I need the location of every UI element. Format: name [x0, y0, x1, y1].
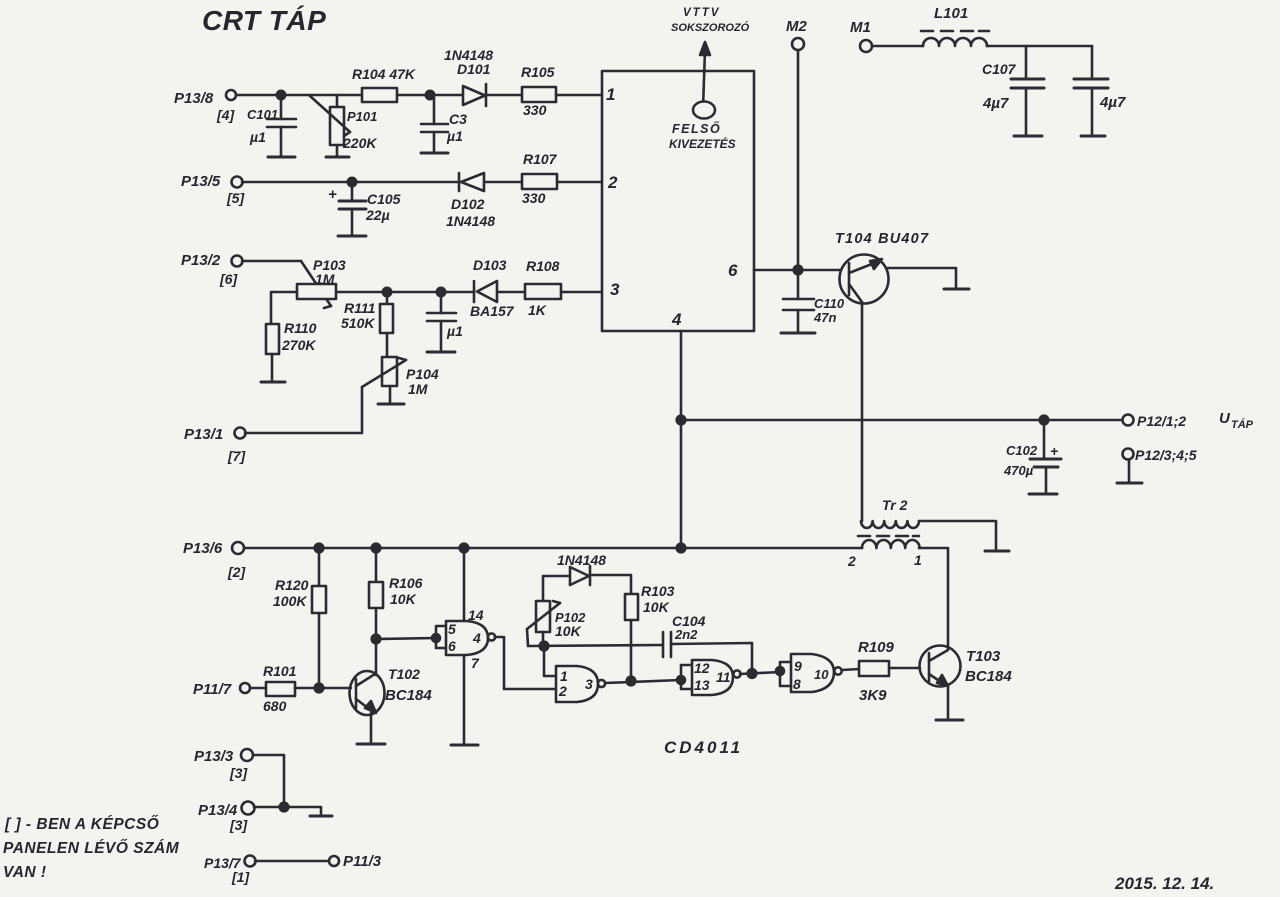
wire T103 emitter to ground	[947, 686, 950, 719]
wire D101 to R105	[486, 94, 522, 97]
svg-text:R110: R110	[284, 320, 317, 336]
ground under u1 cap	[427, 351, 455, 354]
svg-text:R111: R111	[344, 300, 376, 316]
svg-text:VTTV: VTTV	[683, 7, 720, 19]
ground under T103	[936, 719, 963, 722]
svg-text:[3]: [3]	[229, 765, 248, 781]
node junction at cap	[437, 288, 445, 296]
svg-text:1N4148: 1N4148	[557, 552, 606, 568]
node junction R103 bottom	[627, 677, 636, 686]
ground at P13/4	[310, 815, 332, 818]
terminal P13/1	[184, 426, 246, 464]
wire NAND2 out to NAND3 in	[605, 680, 681, 683]
svg-text:4: 4	[472, 630, 481, 646]
svg-text:D103: D103	[473, 257, 507, 273]
wire P13/5 to D102	[242, 181, 458, 184]
wire junction to NAND1 inputs	[376, 638, 436, 639]
svg-text:[4]: [4]	[216, 107, 235, 123]
ground under C107	[1014, 135, 1042, 138]
svg-text:D101: D101	[457, 61, 491, 77]
node junction pin4/P12	[677, 416, 686, 425]
wire P13/6 long rail	[244, 547, 862, 550]
terminal M2	[786, 18, 807, 50]
wire T104 emitter to ground	[888, 268, 956, 288]
potentiometer P101 220K	[310, 95, 377, 156]
svg-text:R108: R108	[526, 258, 560, 274]
svg-text:3: 3	[610, 280, 620, 299]
resistor R109 3K9	[858, 639, 895, 704]
svg-text:330: 330	[522, 190, 546, 206]
wire P103 right to D103	[336, 291, 474, 294]
svg-text:µ1: µ1	[446, 323, 463, 339]
terminal P13/8	[174, 90, 236, 123]
node junction R106/gate input	[372, 635, 381, 644]
svg-text:4: 4	[671, 310, 682, 329]
ground under C101	[268, 156, 295, 159]
wire P103 left to R110	[271, 292, 297, 324]
node junction C104 feedback	[748, 669, 757, 678]
wire P13/4 to ground	[254, 807, 321, 815]
wire P13/2 to P103 wiper	[242, 260, 301, 263]
svg-text:P11/7: P11/7	[193, 681, 232, 698]
node junction at C105	[348, 178, 356, 186]
ground under C102	[1029, 493, 1057, 496]
wire NAND1 out to NAND2 pin2	[495, 637, 556, 689]
wire R101 to T102 base	[295, 687, 351, 690]
resistor R106 10K	[369, 548, 423, 675]
transistor T103 BC184	[920, 646, 1013, 687]
svg-text:[6]: [6]	[219, 271, 238, 287]
wire T104 collector down to Tr2	[861, 302, 864, 521]
capacitor C105 22u electrolytic	[328, 182, 401, 235]
terminal M1	[850, 19, 872, 52]
svg-text:L101: L101	[934, 5, 968, 22]
wire P13/1 to P104 wiper	[245, 387, 362, 433]
svg-text:R101: R101	[263, 663, 297, 679]
svg-text:µ1: µ1	[446, 128, 463, 144]
note text bottom left	[3, 815, 180, 881]
svg-text:8: 8	[793, 676, 801, 692]
svg-text:10K: 10K	[555, 623, 582, 639]
capacitor C102 470u	[1003, 420, 1061, 493]
svg-text:BC184: BC184	[385, 687, 432, 704]
NAND gate U1A pins 5,6,4	[436, 607, 495, 671]
svg-text:TÁP: TÁP	[1231, 418, 1254, 431]
svg-text:6: 6	[448, 638, 456, 654]
terminal P12/1;2 U TAP	[1123, 410, 1254, 431]
svg-text:P13/8: P13/8	[174, 90, 214, 107]
resistor R108 1K	[525, 258, 561, 318]
wire C104 right to NAND3 out node	[671, 643, 752, 674]
svg-text:1N4148: 1N4148	[446, 213, 495, 229]
diode D102 1N4148	[446, 173, 495, 229]
svg-text:P12/3;4;5: P12/3;4;5	[1135, 447, 1197, 463]
node junction at R111	[383, 288, 391, 296]
svg-text:470µ: 470µ	[1003, 463, 1034, 478]
svg-text:3: 3	[585, 676, 593, 692]
svg-text:R104 47K: R104 47K	[352, 66, 416, 82]
svg-text:P13/2: P13/2	[181, 252, 221, 269]
svg-text:R106: R106	[389, 575, 423, 591]
wire D103 to R108	[497, 291, 525, 294]
svg-text:4µ7: 4µ7	[982, 95, 1009, 112]
svg-text:2: 2	[847, 553, 856, 569]
transformer Tr2	[847, 497, 922, 569]
wire Tr2 top right to ground	[919, 521, 996, 549]
svg-text:R109: R109	[858, 639, 895, 656]
svg-text:[7]: [7]	[227, 448, 246, 464]
potentiometer P104 1M	[362, 357, 439, 403]
arrow top terminal	[700, 42, 710, 108]
wire P11/7 to R101	[250, 687, 266, 690]
wire R108 to pin 3	[561, 291, 602, 294]
wire R104 to D101	[397, 94, 464, 97]
resistor R110 270K	[266, 320, 317, 381]
svg-text:Tr 2: Tr 2	[882, 497, 908, 513]
svg-text:P13/1: P13/1	[184, 426, 223, 443]
ground under second cap	[1081, 135, 1105, 138]
terminal P13/5	[181, 173, 245, 206]
svg-text:1M: 1M	[408, 381, 428, 397]
svg-text:+: +	[328, 186, 337, 203]
svg-text:P101: P101	[347, 109, 377, 124]
ground under C105	[338, 235, 366, 238]
wire pin7 to ground	[463, 655, 466, 744]
svg-text:[2]: [2]	[227, 564, 246, 580]
svg-text:P13/6: P13/6	[183, 540, 223, 557]
resistor R107 330	[522, 151, 558, 206]
node junction P13/3-P13/4	[280, 803, 289, 812]
svg-text:6: 6	[728, 261, 738, 280]
terminal P13/6	[183, 540, 246, 580]
wire pin 4 down	[680, 331, 683, 548]
capacitor C104 2n2	[663, 613, 706, 657]
diode D101 1N4148	[444, 47, 493, 106]
svg-text:R103: R103	[641, 583, 675, 599]
svg-text:CRT TÁP: CRT TÁP	[202, 5, 326, 36]
wire R109 to T103 base	[889, 667, 920, 670]
capacitor C107 4u7	[982, 46, 1044, 135]
inductor L101	[921, 5, 989, 46]
node junctions on rail	[315, 544, 324, 553]
wire R107 to pin 2	[557, 181, 602, 184]
terminal P11/3	[329, 853, 382, 870]
svg-text:VAN !: VAN !	[3, 864, 47, 881]
svg-text:C102: C102	[1006, 443, 1038, 458]
ground under C110	[781, 332, 815, 335]
svg-text:11: 11	[716, 669, 731, 685]
terminal P13/4	[198, 802, 255, 834]
svg-text:10: 10	[814, 667, 829, 682]
ground under P101	[326, 156, 349, 159]
wire NAND3 out to NAND4 in	[740, 672, 780, 674]
wire P13/7 to P11/3	[255, 860, 329, 863]
wire P13/8 to R104	[236, 94, 362, 97]
transistor T102 BC184	[350, 666, 433, 715]
svg-text:3K9: 3K9	[859, 687, 887, 704]
resistor R103 10K	[625, 583, 675, 681]
svg-text:13: 13	[694, 677, 710, 693]
wire pin 6 to T104 base	[754, 269, 841, 272]
svg-text:CD4011: CD4011	[664, 738, 743, 757]
capacitor 4u7 second	[1074, 46, 1126, 135]
terminal P12/3;4;5	[1123, 447, 1197, 482]
transistor T104 BU407	[835, 231, 929, 304]
wire NAND4 out to R109	[842, 669, 859, 670]
wire P102 to C104	[528, 645, 663, 646]
svg-text:1K: 1K	[528, 302, 547, 318]
ground under P104	[378, 403, 404, 406]
svg-text:M1: M1	[850, 19, 871, 36]
svg-text:SOKSZOROZÓ: SOKSZOROZÓ	[671, 21, 750, 34]
NAND gate U1D pins 9,8,10	[780, 654, 842, 692]
diode D103 BA157	[470, 257, 515, 319]
svg-text:[3]: [3]	[229, 817, 248, 833]
resistor R105 330	[521, 64, 556, 118]
wire to P12/1;2	[681, 419, 1122, 422]
svg-text:7: 7	[471, 655, 480, 671]
ground at T104	[944, 288, 969, 291]
svg-text:P12/1;2: P12/1;2	[1137, 413, 1186, 429]
multiplier block U (VTTV)	[602, 71, 754, 331]
svg-text:2n2: 2n2	[674, 627, 698, 642]
svg-text:1: 1	[606, 85, 615, 104]
NAND gate U1B pins 1,2,3	[556, 666, 605, 702]
node junction NAND4 input	[776, 667, 784, 675]
node junction NAND3 input	[677, 676, 685, 684]
ground pin 7	[451, 744, 478, 747]
svg-text:680: 680	[263, 698, 287, 714]
svg-text:T104 BU407: T104 BU407	[835, 231, 929, 247]
svg-text:KIVEZETÉS: KIVEZETÉS	[669, 136, 736, 151]
node junction NAND1 input	[432, 634, 440, 642]
svg-text:P11/3: P11/3	[343, 853, 382, 870]
svg-text:5: 5	[448, 621, 456, 637]
svg-text:BA157: BA157	[470, 303, 515, 319]
resistor R104 47K	[352, 66, 416, 102]
svg-text:330: 330	[523, 102, 547, 118]
resistor R101 680	[263, 663, 297, 714]
potentiometer P103 1M	[297, 257, 346, 308]
terminal P13/2	[181, 252, 243, 287]
blob felso kivezetes terminal	[669, 102, 736, 152]
wire R105 to pin 1	[556, 94, 602, 97]
svg-text:M2: M2	[786, 18, 807, 35]
wire M2 down	[797, 50, 800, 270]
svg-text:D102: D102	[451, 196, 485, 212]
svg-text:T102: T102	[388, 666, 420, 682]
svg-text:C3: C3	[449, 111, 467, 127]
svg-text:100K: 100K	[273, 593, 307, 609]
svg-text:12: 12	[694, 660, 710, 676]
svg-text:10K: 10K	[390, 591, 417, 607]
node junction at C3	[426, 91, 434, 99]
wire Tr2 bottom right to T103 collector	[919, 548, 948, 649]
svg-text:C101: C101	[247, 107, 278, 122]
resistor R120 100K	[273, 548, 326, 688]
ground under C3	[421, 152, 448, 155]
label VTTV SOKSZOROZO	[671, 7, 750, 34]
svg-text:P104: P104	[406, 366, 439, 382]
svg-text:1: 1	[914, 552, 922, 568]
terminal P13/7	[204, 855, 256, 885]
svg-text:[1]: [1]	[231, 869, 250, 885]
capacitor C101	[247, 95, 296, 156]
svg-text:U: U	[1219, 410, 1231, 427]
svg-text:510K: 510K	[341, 315, 375, 331]
svg-text:[ ] - BEN A KÉPCSŐ: [ ] - BEN A KÉPCSŐ	[4, 815, 159, 833]
svg-text:PANELEN LÉVŐ SZÁM: PANELEN LÉVŐ SZÁM	[3, 839, 180, 857]
capacitor C110 47n	[783, 270, 845, 331]
svg-text:P13/5: P13/5	[181, 173, 221, 190]
node junction P102 bottom	[540, 642, 549, 651]
svg-text:2: 2	[607, 173, 618, 192]
svg-text:14: 14	[468, 607, 484, 623]
svg-text:C105: C105	[367, 191, 401, 207]
svg-text:1: 1	[560, 668, 568, 684]
node junction at C101	[277, 91, 285, 99]
svg-text:T103: T103	[966, 648, 1001, 665]
svg-text:µ1: µ1	[249, 129, 266, 145]
NAND gate U1C pins 12,13,11	[681, 660, 741, 695]
potentiometer P102 10K	[527, 601, 586, 646]
svg-text:+: +	[1050, 443, 1058, 459]
svg-text:47n: 47n	[813, 310, 836, 325]
diode 1N4148 over P102	[543, 552, 631, 601]
svg-text:22µ: 22µ	[365, 207, 390, 223]
node junction M2/C110	[794, 266, 803, 275]
resistor R111 510K	[341, 292, 393, 357]
svg-text:C107: C107	[982, 61, 1017, 77]
wire P102 node to NAND2 pin1	[544, 646, 556, 676]
wire D102 to R107	[484, 181, 522, 184]
svg-text:2: 2	[558, 683, 567, 699]
wire VDD pin14 from rail	[463, 548, 466, 621]
node junction at C102	[1040, 416, 1049, 425]
node junction R120/base	[315, 684, 324, 693]
svg-text:9: 9	[794, 658, 802, 674]
wire P13/3 to junction	[253, 755, 284, 807]
ground at Tr2	[985, 550, 1009, 553]
svg-text:C110: C110	[814, 296, 845, 311]
svg-text:270K: 270K	[281, 337, 316, 353]
svg-text:FELSŐ: FELSŐ	[672, 121, 721, 136]
svg-text:1M: 1M	[315, 271, 335, 287]
svg-text:BC184: BC184	[965, 668, 1012, 685]
ground under T102	[357, 743, 385, 746]
wire M1 to L101	[872, 45, 923, 48]
terminal P11/7	[193, 681, 250, 698]
svg-text:220K: 220K	[342, 135, 377, 151]
wire T102 emitter to ground	[370, 713, 373, 743]
wire L101 to caps	[987, 45, 1092, 48]
ground under P12/3;4;5	[1117, 482, 1142, 485]
capacitor C3	[421, 95, 467, 152]
svg-text:R105: R105	[521, 64, 555, 80]
svg-text:R107: R107	[523, 151, 558, 167]
ground under R110	[261, 381, 285, 384]
svg-text:4µ7: 4µ7	[1099, 94, 1126, 111]
capacitor u1 at pin3	[427, 292, 463, 350]
svg-text:10K: 10K	[643, 599, 670, 615]
svg-text:R120: R120	[275, 577, 309, 593]
svg-text:2015. 12. 14.: 2015. 12. 14.	[1114, 874, 1214, 893]
terminal P13/3	[194, 748, 253, 781]
svg-text:[5]: [5]	[226, 190, 245, 206]
svg-text:P13/3: P13/3	[194, 748, 234, 765]
